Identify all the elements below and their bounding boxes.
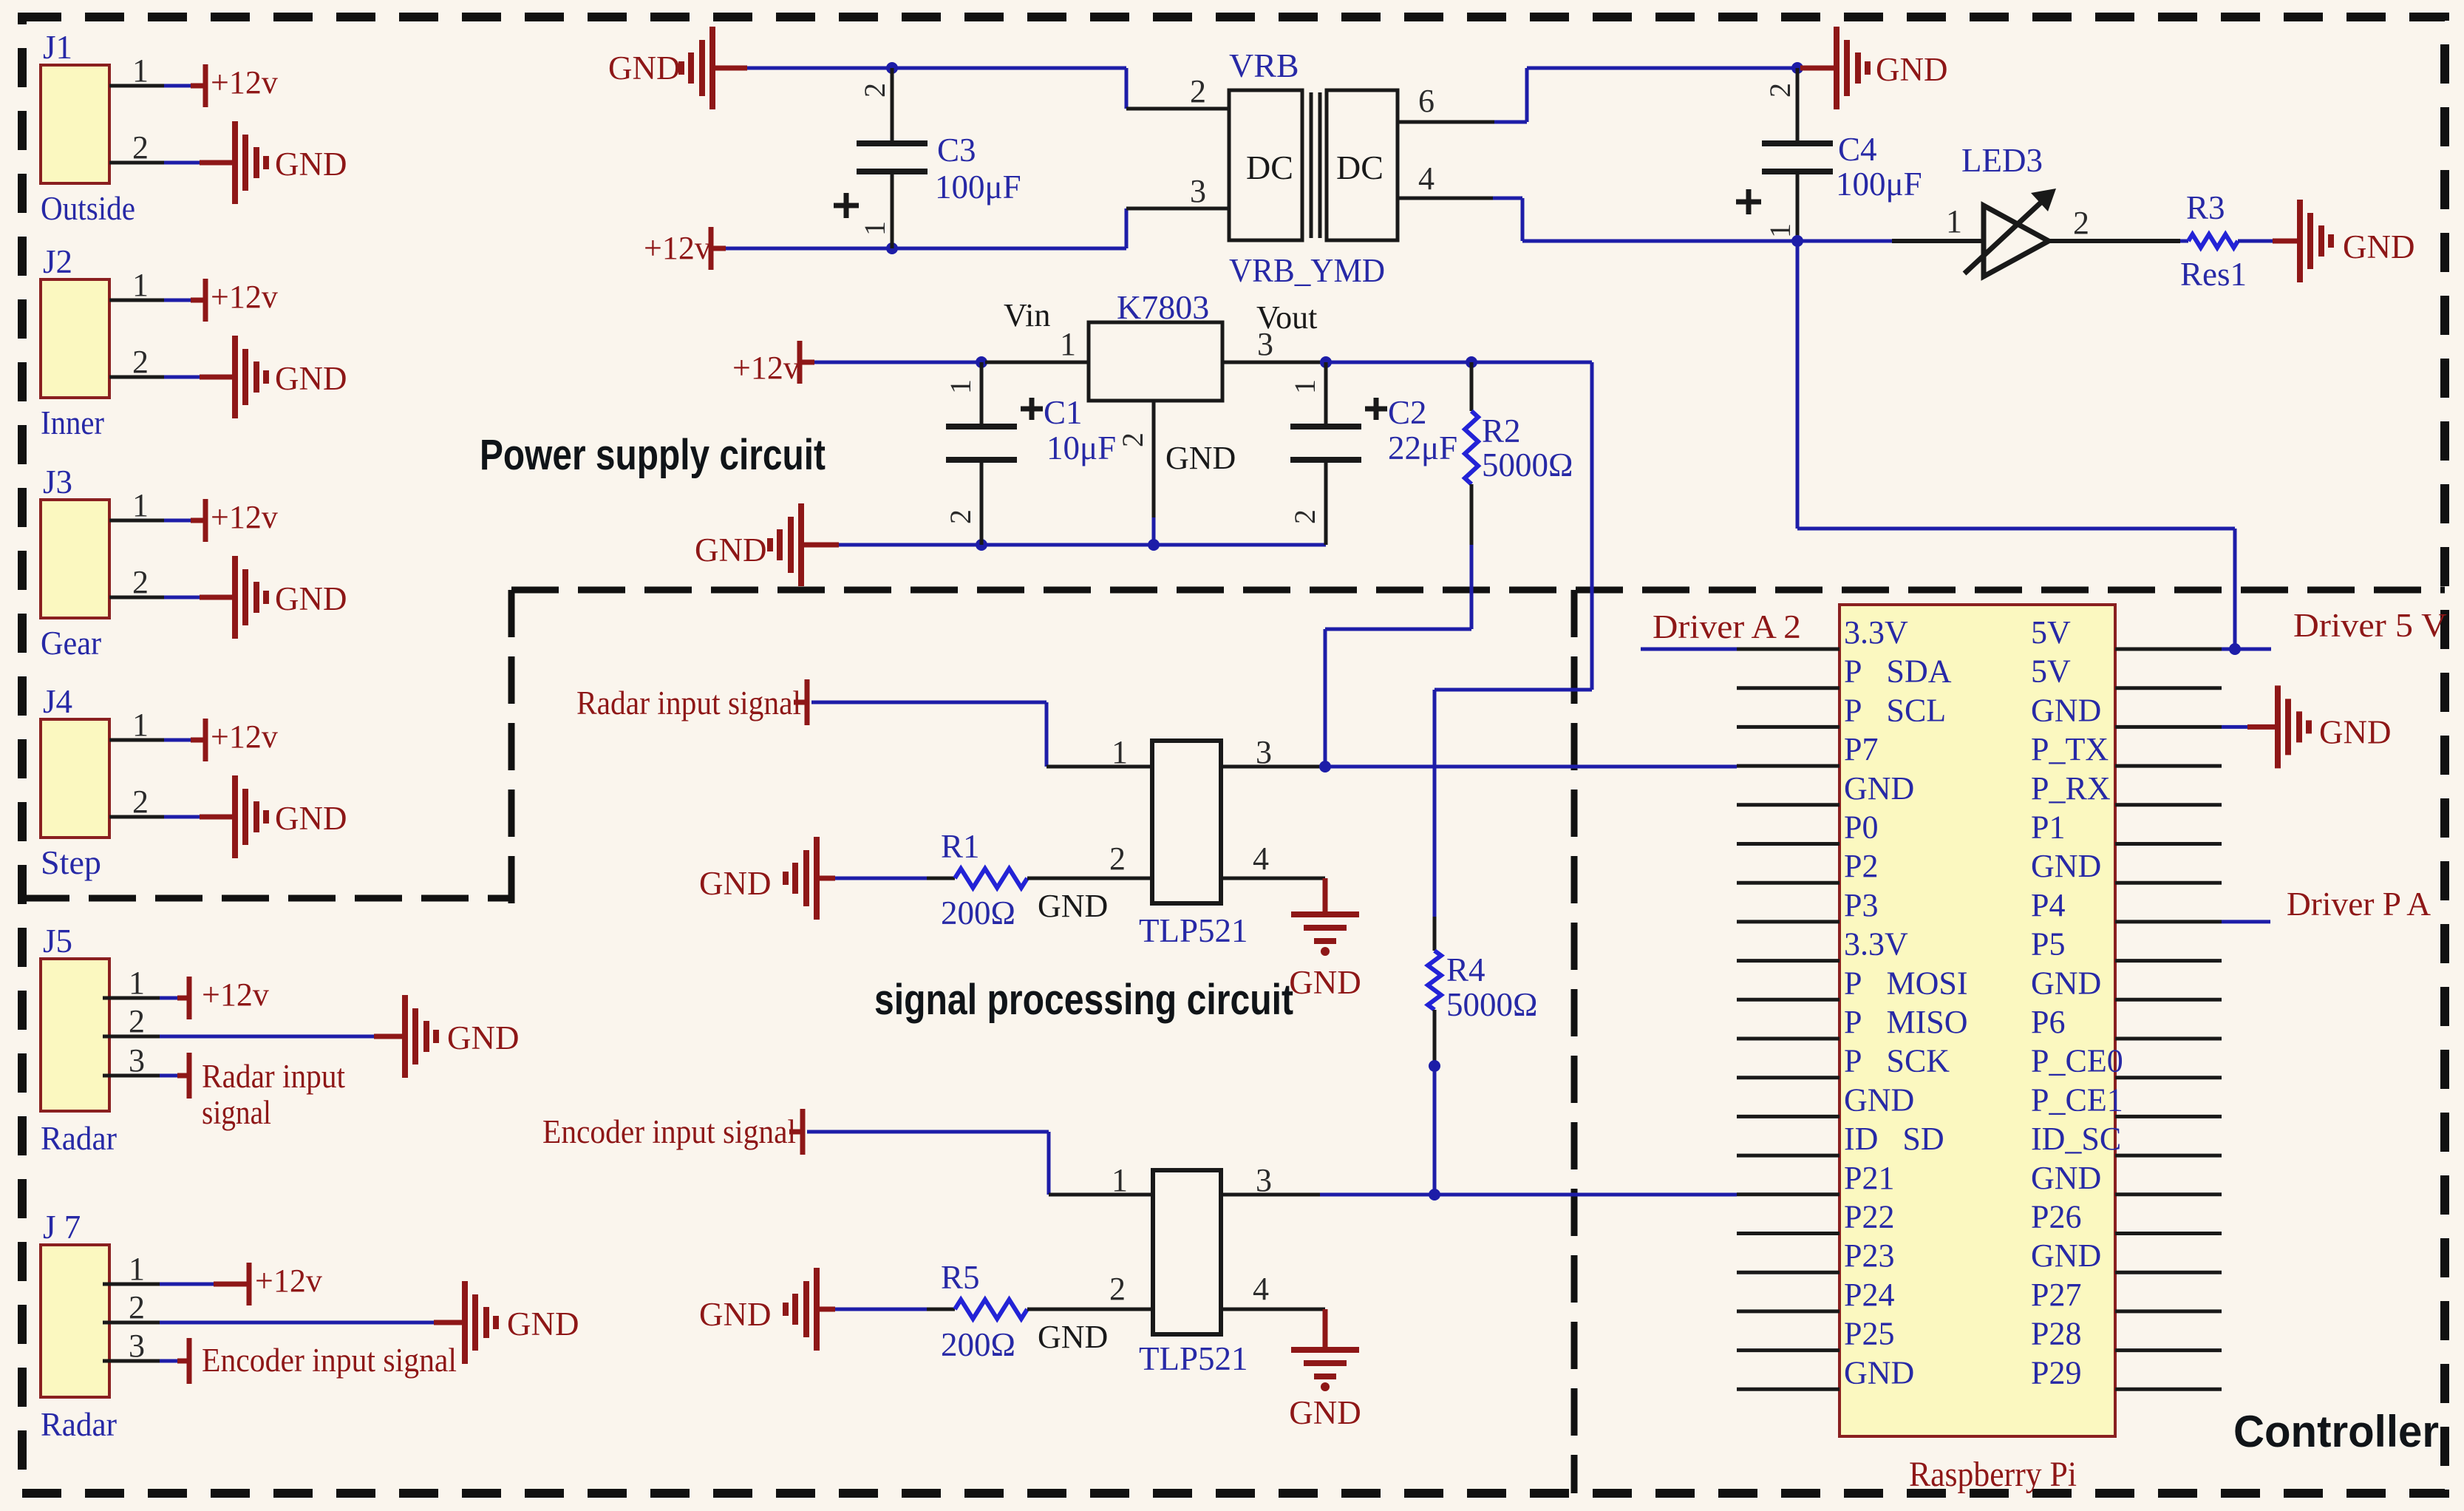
svg-text:2: 2	[1116, 432, 1149, 447]
svg-text:1: 1	[1112, 734, 1128, 770]
svg-text:R2: R2	[1482, 412, 1521, 449]
svg-text:Gear: Gear	[41, 625, 101, 662]
svg-text:2: 2	[129, 1003, 145, 1039]
svg-text:Vin: Vin	[1004, 297, 1050, 333]
svg-text:1: 1	[858, 221, 891, 236]
svg-text:1: 1	[1060, 326, 1076, 362]
svg-text:P_TX: P_TX	[2031, 731, 2109, 767]
svg-text:P_CE1: P_CE1	[2031, 1082, 2123, 1118]
svg-text:GND: GND	[2031, 965, 2101, 1001]
svg-text:2: 2	[1288, 509, 1321, 524]
svg-text:GND: GND	[275, 580, 347, 617]
svg-text:1: 1	[132, 487, 149, 523]
svg-text:P21: P21	[1844, 1160, 1894, 1196]
svg-text:3: 3	[1257, 326, 1273, 362]
svg-text:GND: GND	[699, 865, 772, 902]
svg-text:Radar: Radar	[41, 1120, 117, 1157]
svg-text:4: 4	[1418, 160, 1435, 197]
svg-text:P7: P7	[1844, 731, 1878, 767]
svg-text:6: 6	[1418, 83, 1435, 119]
svg-text:2: 2	[858, 83, 891, 98]
svg-text:2: 2	[944, 509, 977, 524]
svg-text:200Ω: 200Ω	[941, 1326, 1015, 1363]
svg-text:3: 3	[129, 1328, 145, 1364]
svg-text:2: 2	[1109, 841, 1126, 877]
svg-text:C1: C1	[1044, 394, 1083, 431]
svg-text:P_RX: P_RX	[2031, 770, 2111, 807]
svg-text:TLP521: TLP521	[1139, 912, 1248, 949]
svg-text:C4: C4	[1838, 131, 1877, 168]
svg-text:GND: GND	[1289, 964, 1361, 1001]
svg-text:P SCL: P SCL	[1844, 692, 1946, 728]
svg-text:5000Ω: 5000Ω	[1482, 446, 1573, 483]
svg-text:P4: P4	[2031, 887, 2065, 923]
svg-text:+12v: +12v	[211, 279, 278, 315]
svg-text:10μF: 10μF	[1046, 429, 1116, 466]
svg-text:Driver P A: Driver P A	[2287, 886, 2431, 923]
svg-text:DC: DC	[1246, 149, 1293, 186]
svg-text:GND: GND	[1165, 440, 1236, 476]
svg-text:2: 2	[2073, 205, 2089, 241]
svg-text:2: 2	[132, 344, 149, 380]
svg-text:GND: GND	[2031, 692, 2101, 728]
svg-text:1: 1	[132, 267, 149, 303]
svg-text:P2: P2	[1844, 848, 1878, 884]
svg-text:J1: J1	[43, 29, 72, 66]
svg-text:1: 1	[129, 1251, 145, 1287]
svg-text:GND: GND	[1876, 51, 1948, 88]
svg-text:R5: R5	[941, 1259, 980, 1296]
svg-text:+12v: +12v	[255, 1263, 322, 1299]
svg-text:P1: P1	[2031, 809, 2065, 846]
svg-text:P MOSI: P MOSI	[1844, 965, 1968, 1001]
svg-text:P29: P29	[2031, 1354, 2081, 1391]
svg-text:GND: GND	[1844, 1082, 1914, 1118]
svg-text:P27: P27	[2031, 1277, 2081, 1313]
svg-text:P6: P6	[2031, 1004, 2065, 1040]
svg-text:Res1: Res1	[2180, 256, 2247, 293]
svg-text:LED3: LED3	[1961, 142, 2043, 179]
svg-text:C2: C2	[1388, 394, 1427, 431]
svg-text:+12v: +12v	[644, 230, 711, 266]
svg-text:+12v: +12v	[211, 499, 278, 535]
svg-text:P_CE0: P_CE0	[2031, 1043, 2123, 1079]
svg-text:GND: GND	[1038, 888, 1108, 924]
svg-text:GND: GND	[2031, 1160, 2101, 1196]
svg-text:P MISO: P MISO	[1844, 1004, 1968, 1040]
svg-text:VRB_YMD: VRB_YMD	[1229, 251, 1385, 289]
svg-text:GND: GND	[275, 800, 347, 837]
svg-text:J2: J2	[43, 243, 72, 280]
svg-text:GND: GND	[507, 1305, 579, 1342]
svg-text:GND: GND	[1844, 1354, 1914, 1391]
svg-text:Raspberry Pi: Raspberry Pi	[1909, 1455, 2077, 1494]
svg-text:100μF: 100μF	[1836, 166, 1922, 203]
svg-text:Encoder input signal: Encoder input signal	[202, 1342, 457, 1379]
svg-text:2: 2	[129, 1289, 145, 1325]
svg-text:Driver 5 V: Driver 5 V	[2293, 607, 2447, 644]
svg-text:1: 1	[1946, 203, 1962, 240]
svg-text:DC: DC	[1336, 149, 1384, 186]
svg-text:+12v: +12v	[732, 350, 800, 386]
svg-text:P28: P28	[2031, 1316, 2081, 1352]
svg-text:P24: P24	[1844, 1277, 1894, 1313]
svg-text:1: 1	[944, 379, 977, 394]
svg-text:+12v: +12v	[211, 719, 278, 755]
svg-text:5000Ω: 5000Ω	[1446, 986, 1537, 1023]
svg-text:R3: R3	[2186, 189, 2225, 226]
svg-text:P SDA: P SDA	[1844, 653, 1952, 690]
svg-text:2: 2	[132, 129, 149, 166]
svg-text:signal processing circuit: signal processing circuit	[874, 976, 1293, 1024]
svg-text:GND: GND	[2031, 848, 2101, 884]
svg-text:1: 1	[1288, 379, 1321, 394]
svg-text:2: 2	[1763, 83, 1797, 98]
svg-text:200Ω: 200Ω	[941, 894, 1015, 931]
svg-text:P25: P25	[1844, 1316, 1894, 1352]
svg-text:R4: R4	[1446, 951, 1485, 988]
svg-text:Controller: Controller	[2233, 1407, 2439, 1456]
svg-text:ID_SC: ID_SC	[2031, 1121, 2121, 1157]
svg-text:4: 4	[1253, 1271, 1269, 1307]
svg-text:GND: GND	[699, 1296, 772, 1333]
svg-text:GND: GND	[1289, 1394, 1361, 1431]
svg-text:P5: P5	[2031, 926, 2065, 962]
svg-text:GND: GND	[447, 1019, 520, 1056]
svg-text:GND: GND	[695, 532, 767, 568]
svg-text:P SCK: P SCK	[1844, 1043, 1950, 1079]
svg-text:Inner: Inner	[41, 404, 104, 441]
svg-text:P26: P26	[2031, 1199, 2081, 1235]
svg-text:22μF: 22μF	[1388, 429, 1457, 466]
svg-text:K7803: K7803	[1117, 288, 1209, 326]
svg-text:1: 1	[1763, 223, 1797, 238]
svg-text:2: 2	[1190, 73, 1206, 109]
svg-text:Radar: Radar	[41, 1406, 117, 1443]
svg-text:TLP521: TLP521	[1139, 1340, 1248, 1377]
svg-text:C3: C3	[937, 132, 976, 169]
svg-text:GND: GND	[2319, 713, 2392, 750]
svg-text:4: 4	[1253, 841, 1269, 877]
svg-text:3: 3	[129, 1042, 145, 1079]
svg-text:J3: J3	[43, 464, 72, 500]
svg-text:P22: P22	[1844, 1199, 1894, 1235]
svg-text:+12v: +12v	[211, 64, 278, 101]
svg-text:P0: P0	[1844, 809, 1878, 846]
svg-text:3: 3	[1190, 173, 1206, 209]
svg-text:100μF: 100μF	[935, 169, 1021, 206]
svg-text:3.3V: 3.3V	[1844, 614, 1908, 651]
svg-text:1: 1	[1112, 1162, 1128, 1198]
svg-text:Driver A 2: Driver A 2	[1653, 608, 1801, 645]
svg-text:Encoder input signal: Encoder input signal	[542, 1113, 796, 1150]
svg-text:GND: GND	[275, 146, 347, 183]
svg-text:5V: 5V	[2031, 653, 2071, 690]
svg-text:2: 2	[1109, 1271, 1126, 1307]
svg-text:GND: GND	[1038, 1319, 1108, 1355]
svg-text:P23: P23	[1844, 1237, 1894, 1274]
svg-text:Radar input: Radar input	[202, 1058, 345, 1095]
svg-text:GND: GND	[608, 50, 681, 86]
svg-text:2: 2	[132, 564, 149, 600]
svg-text:3.3V: 3.3V	[1844, 926, 1908, 962]
svg-text:signal: signal	[202, 1094, 271, 1131]
svg-text:P3: P3	[1844, 887, 1878, 923]
svg-text:Power supply circuit: Power supply circuit	[480, 431, 826, 479]
svg-text:GND: GND	[275, 360, 347, 397]
svg-text:J5: J5	[43, 923, 72, 960]
svg-text:+12v: +12v	[202, 977, 269, 1013]
svg-text:5V: 5V	[2031, 614, 2071, 651]
svg-text:VRB: VRB	[1229, 47, 1299, 84]
svg-text:1: 1	[132, 707, 149, 743]
svg-text:GND: GND	[1844, 770, 1914, 807]
svg-text:GND: GND	[2343, 228, 2415, 265]
svg-text:J 7: J 7	[43, 1209, 81, 1246]
svg-text:Radar input signal: Radar input signal	[576, 685, 801, 721]
svg-text:ID SD: ID SD	[1844, 1121, 1944, 1157]
svg-text:1: 1	[132, 52, 149, 89]
svg-text:R1: R1	[941, 828, 980, 865]
svg-text:Step: Step	[41, 844, 101, 881]
svg-text:2: 2	[132, 784, 149, 820]
svg-text:Outside: Outside	[41, 190, 135, 227]
svg-text:1: 1	[129, 965, 145, 1001]
svg-text:J4: J4	[43, 683, 72, 720]
svg-text:GND: GND	[2031, 1237, 2101, 1274]
